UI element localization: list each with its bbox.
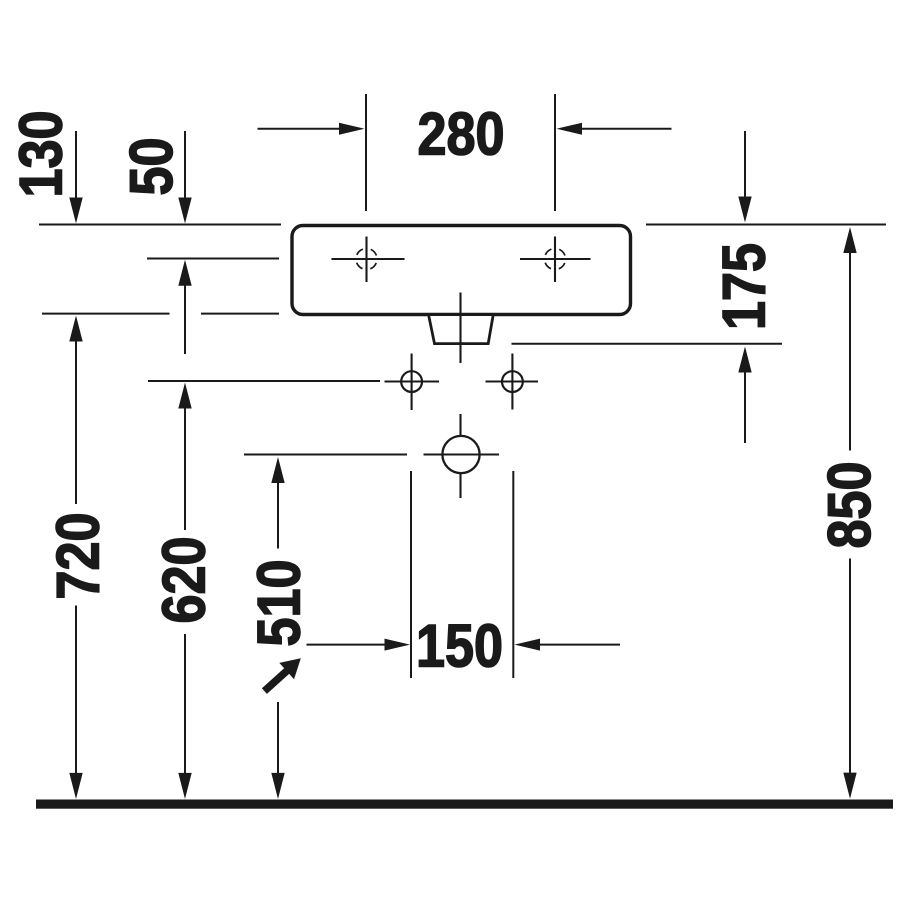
svg-text:720: 720 <box>44 512 111 599</box>
label 510 <box>245 559 312 646</box>
drain hole circle <box>442 436 479 473</box>
mounting hole right: cross <box>486 354 539 410</box>
arrowhead 280 right <box>557 123 583 135</box>
extension line: 150 dim left <box>410 471 412 678</box>
sink body outline <box>292 226 631 315</box>
arrowhead 150 left <box>385 639 411 651</box>
dim 50: top line <box>184 131 186 200</box>
mounting hole right: circle <box>502 371 523 392</box>
dim 175: top line <box>744 131 746 199</box>
label 50 <box>118 137 185 195</box>
faucet hole right: dashed circle <box>545 249 566 270</box>
label 720 <box>44 512 111 599</box>
extension line: 150 dim right <box>512 471 514 678</box>
arrowhead 620 down <box>178 773 191 799</box>
svg-text:150: 150 <box>416 612 503 679</box>
extension line: faucet hole level <box>147 258 279 260</box>
dim 175: bottom tail <box>744 371 746 443</box>
dim 620: line <box>184 406 186 775</box>
dim 150: right arrow line <box>539 644 620 646</box>
svg-text:510: 510 <box>245 559 312 646</box>
dim 720: line <box>75 340 77 775</box>
arrowhead 280 left <box>339 123 365 135</box>
arrowhead 130 down <box>69 198 82 224</box>
drain vertical centerline <box>459 293 461 499</box>
extension line: sink top level <box>39 224 886 226</box>
label 620 <box>150 536 217 623</box>
drain trapezoid <box>429 316 493 344</box>
label 850 <box>816 461 883 548</box>
svg-text:280: 280 <box>417 100 504 167</box>
arrowhead 850 up <box>843 227 856 253</box>
arrowhead 175 up <box>738 347 751 373</box>
arrowhead 850 down <box>843 773 856 799</box>
faucet hole right: cross <box>520 237 591 283</box>
dim 50: bottom tail <box>184 283 186 354</box>
arrowhead 50 down <box>178 198 191 224</box>
extension line: trapezoid bottom level <box>512 343 783 345</box>
dim 130: line <box>75 131 77 200</box>
arrowhead 720 down <box>69 773 82 799</box>
label 280 <box>417 100 504 167</box>
extension line: 280 dim left <box>365 94 367 211</box>
label 130 <box>7 110 74 197</box>
faucet hole left: cross <box>332 237 405 283</box>
arrowhead 510 up <box>271 457 284 483</box>
arrowhead 150 right <box>515 639 541 651</box>
label 150 <box>416 612 503 679</box>
extension line: drain center level <box>244 454 407 456</box>
outlet direction arrow (thick diagonal) <box>257 650 308 699</box>
svg-text:620: 620 <box>150 536 217 623</box>
extension line: sink bottom level <box>42 313 279 315</box>
arrowhead 50 up <box>178 260 191 286</box>
floor line <box>36 800 893 809</box>
svg-text:130: 130 <box>7 110 74 197</box>
arrowhead 510 down <box>271 773 284 799</box>
svg-text:175: 175 <box>710 243 777 330</box>
dim 280: left arrow <box>258 128 342 130</box>
extension line: 280 dim right <box>554 94 556 211</box>
dim 510: line <box>277 481 279 775</box>
mounting hole left: cross <box>385 354 440 411</box>
mounting hole left: circle <box>401 371 422 392</box>
faucet hole left: dashed circle <box>356 249 377 270</box>
drain hole horizontal centerline <box>424 453 500 455</box>
dim 280: right arrow line <box>581 128 672 130</box>
arrowhead 175 down <box>738 197 751 223</box>
arrowhead 720 up <box>69 316 82 342</box>
arrowhead 620 up <box>178 383 191 409</box>
extension line: mounting hole level <box>148 380 380 382</box>
label 175 <box>710 243 777 330</box>
svg-text:50: 50 <box>118 137 185 195</box>
svg-text:850: 850 <box>816 461 883 548</box>
dim 850: line <box>849 252 851 775</box>
dim 150: left arrow line <box>307 644 387 646</box>
